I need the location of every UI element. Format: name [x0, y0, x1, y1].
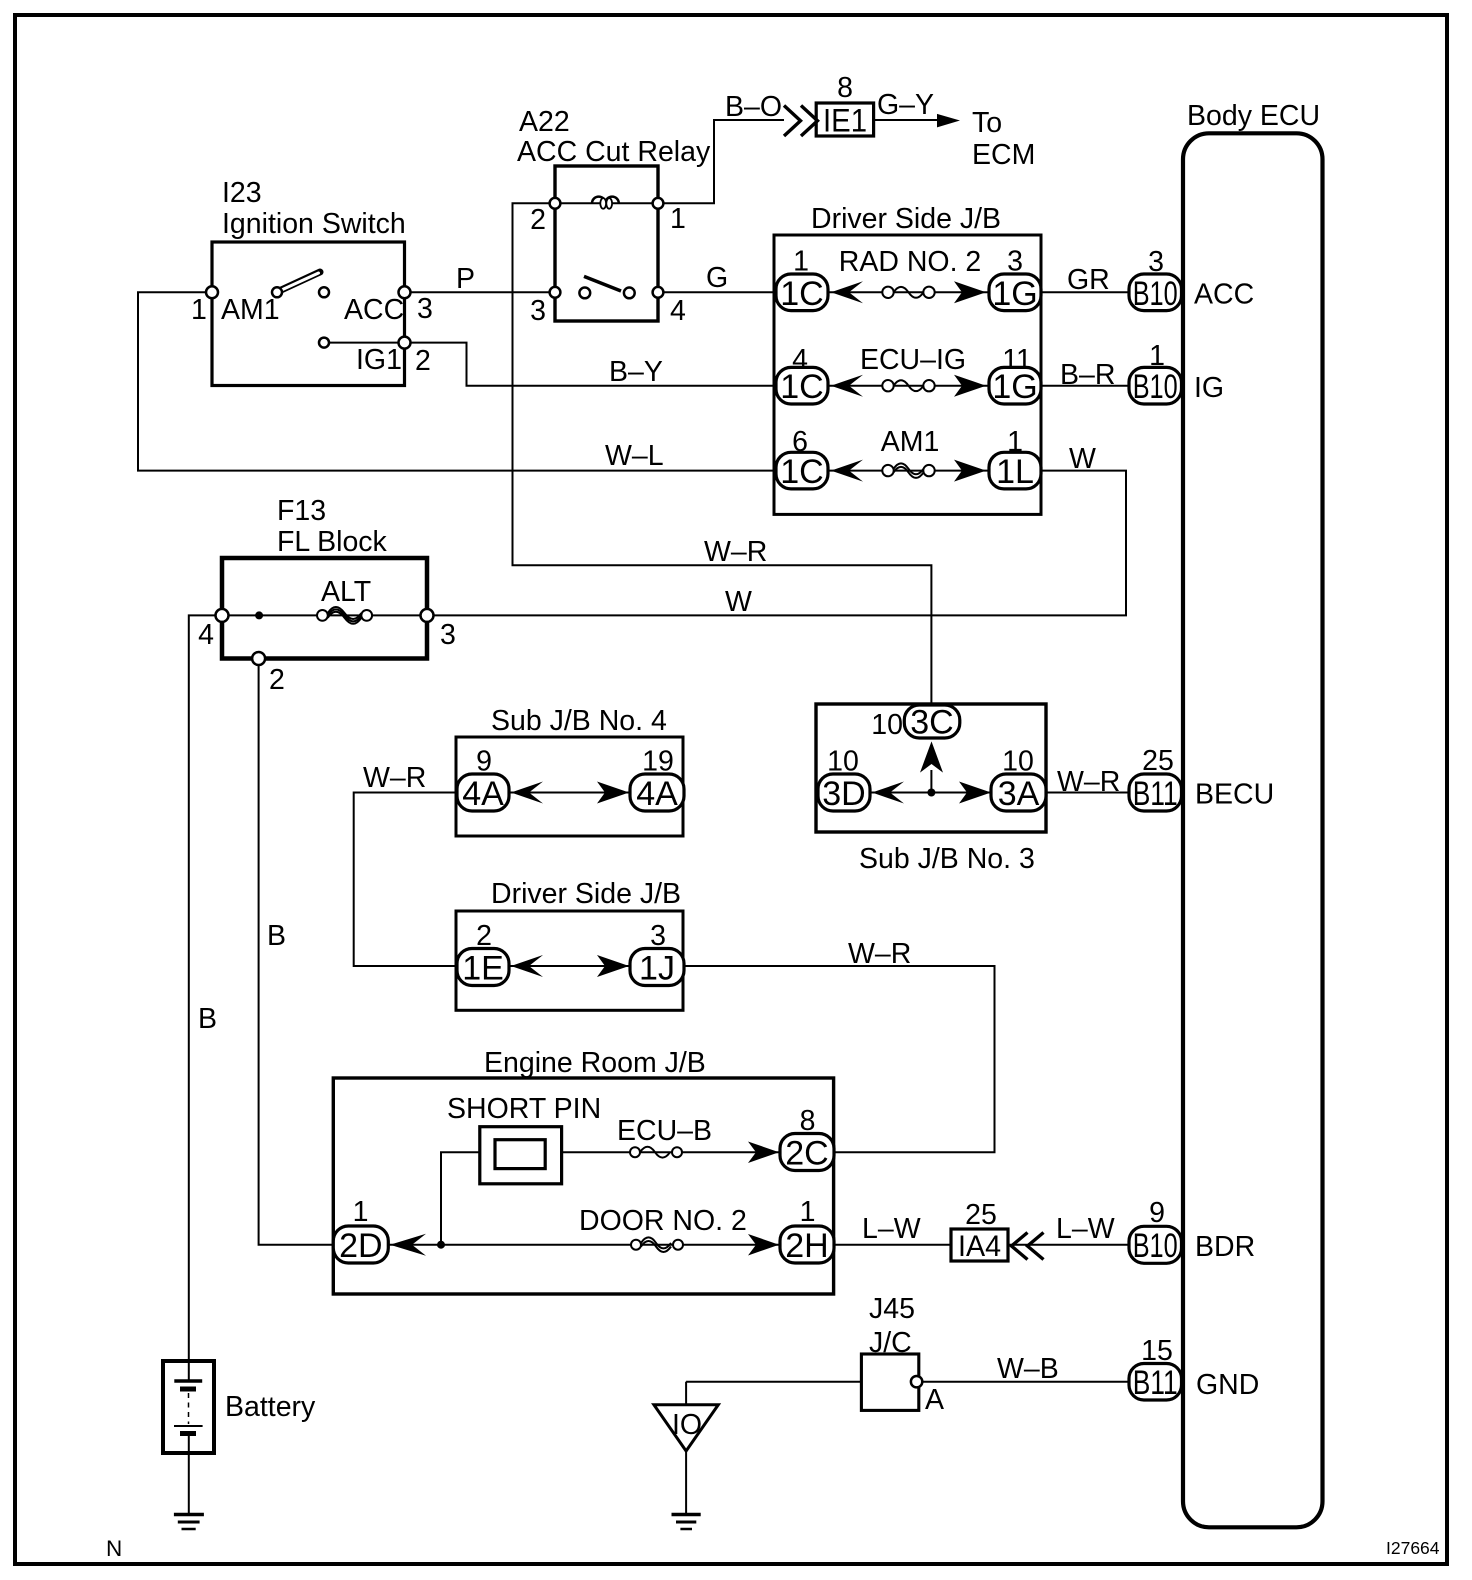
svg-text:GND: GND: [1196, 1369, 1259, 1401]
svg-text:ECU–B: ECU–B: [617, 1115, 712, 1147]
svg-text:BDR: BDR: [1195, 1231, 1255, 1263]
svg-text:1G: 1G: [992, 368, 1037, 406]
svg-text:IO: IO: [672, 1409, 702, 1441]
svg-text:3D: 3D: [822, 775, 865, 813]
svg-text:3: 3: [1007, 246, 1023, 278]
svg-text:B10: B10: [1133, 1227, 1178, 1265]
svg-text:B–Y: B–Y: [609, 356, 663, 388]
svg-text:19: 19: [642, 746, 674, 778]
svg-text:IG1: IG1: [356, 344, 402, 376]
svg-text:ECU–IG: ECU–IG: [860, 344, 966, 376]
svg-text:W–B: W–B: [997, 1353, 1059, 1385]
svg-text:W–R: W–R: [704, 536, 767, 568]
svg-text:3: 3: [417, 293, 433, 325]
svg-text:J45: J45: [869, 1293, 915, 1325]
svg-text:8: 8: [800, 1105, 816, 1137]
svg-text:1L: 1L: [996, 453, 1034, 491]
svg-text:AM1: AM1: [221, 294, 280, 326]
svg-text:Engine Room J/B: Engine Room J/B: [484, 1047, 706, 1079]
svg-text:1C: 1C: [780, 275, 823, 313]
svg-text:W–R: W–R: [1057, 766, 1120, 798]
svg-text:L–W: L–W: [1056, 1213, 1115, 1245]
svg-text:3: 3: [650, 920, 666, 952]
svg-text:B11: B11: [1133, 1364, 1178, 1402]
svg-text:8: 8: [837, 72, 853, 104]
svg-text:1: 1: [1149, 340, 1165, 372]
svg-text:B–O: B–O: [725, 91, 782, 123]
svg-text:9: 9: [1149, 1197, 1165, 1229]
svg-text:J/C: J/C: [869, 1327, 912, 1359]
svg-text:1: 1: [670, 203, 686, 235]
svg-text:3: 3: [1148, 246, 1164, 278]
svg-text:IG: IG: [1194, 372, 1224, 404]
svg-text:B: B: [198, 1003, 217, 1035]
svg-text:G–Y: G–Y: [877, 89, 934, 121]
svg-text:3: 3: [530, 295, 546, 327]
svg-text:Ignition Switch: Ignition Switch: [222, 208, 406, 240]
svg-text:W–R: W–R: [363, 762, 426, 794]
svg-text:RAD NO. 2: RAD NO. 2: [839, 246, 982, 278]
svg-text:SHORT PIN: SHORT PIN: [447, 1093, 601, 1125]
svg-text:2H: 2H: [785, 1227, 828, 1265]
svg-text:BECU: BECU: [1195, 779, 1274, 811]
svg-text:P: P: [456, 263, 475, 295]
svg-text:2: 2: [530, 204, 546, 236]
svg-text:4: 4: [670, 295, 686, 327]
svg-text:L–W: L–W: [862, 1213, 921, 1245]
svg-text:1C: 1C: [780, 453, 823, 491]
svg-text:B10: B10: [1133, 368, 1178, 406]
svg-text:B11: B11: [1133, 775, 1178, 813]
svg-text:W–R: W–R: [848, 938, 911, 970]
svg-text:GR: GR: [1067, 264, 1110, 296]
svg-text:2: 2: [415, 345, 431, 377]
svg-text:3A: 3A: [998, 775, 1040, 813]
svg-text:1: 1: [353, 1196, 369, 1228]
svg-text:B: B: [267, 920, 286, 952]
svg-text:W–L: W–L: [605, 440, 664, 472]
svg-text:IA4: IA4: [958, 1230, 1001, 1263]
svg-text:1: 1: [793, 246, 809, 278]
svg-text:1: 1: [800, 1196, 816, 1228]
svg-text:1C: 1C: [780, 368, 823, 406]
svg-text:2: 2: [269, 664, 285, 696]
svg-text:ACC: ACC: [344, 294, 404, 326]
svg-text:A22: A22: [519, 106, 570, 138]
svg-text:10: 10: [827, 746, 859, 778]
svg-text:1E: 1E: [462, 950, 504, 988]
svg-text:B–R: B–R: [1060, 359, 1115, 391]
svg-text:15: 15: [1141, 1335, 1173, 1367]
svg-text:B10: B10: [1133, 275, 1178, 313]
svg-text:ACC: ACC: [1194, 279, 1254, 311]
svg-text:10: 10: [1002, 746, 1034, 778]
svg-text:9: 9: [476, 746, 492, 778]
svg-text:2C: 2C: [785, 1135, 828, 1173]
svg-text:4: 4: [198, 619, 214, 651]
svg-text:I23: I23: [222, 177, 262, 209]
svg-text:ALT: ALT: [321, 576, 371, 608]
svg-text:F13: F13: [277, 495, 326, 527]
svg-text:25: 25: [1142, 745, 1174, 777]
svg-text:Sub J/B No. 4: Sub J/B No. 4: [491, 705, 667, 737]
svg-text:1G: 1G: [992, 275, 1037, 313]
svg-text:To: To: [972, 107, 1002, 139]
svg-text:Driver Side J/B: Driver Side J/B: [491, 878, 681, 910]
svg-text:FL Block: FL Block: [277, 526, 388, 558]
svg-text:Sub J/B No. 3: Sub J/B No. 3: [859, 843, 1035, 875]
svg-text:ACC Cut Relay: ACC Cut Relay: [517, 136, 711, 168]
svg-text:G: G: [706, 262, 728, 294]
svg-text:3: 3: [440, 619, 456, 651]
svg-text:Battery: Battery: [225, 1391, 316, 1423]
svg-text:Driver Side J/B: Driver Side J/B: [811, 203, 1001, 235]
svg-text:AM1: AM1: [881, 426, 940, 458]
svg-text:N: N: [106, 1536, 122, 1561]
svg-text:ECM: ECM: [972, 139, 1035, 171]
svg-text:25: 25: [965, 1199, 997, 1231]
svg-text:4A: 4A: [636, 775, 678, 813]
svg-text:W: W: [1069, 443, 1096, 475]
svg-text:DOOR NO. 2: DOOR NO. 2: [579, 1205, 747, 1237]
svg-text:3C: 3C: [910, 704, 953, 742]
svg-text:A: A: [925, 1384, 944, 1416]
svg-text:10: 10: [871, 709, 903, 741]
svg-text:IE1: IE1: [823, 103, 867, 139]
svg-text:1J: 1J: [639, 950, 675, 988]
svg-text:1: 1: [191, 294, 207, 326]
svg-text:2D: 2D: [339, 1227, 382, 1265]
svg-text:Body ECU: Body ECU: [1187, 100, 1320, 132]
svg-text:W: W: [725, 586, 752, 618]
svg-text:4A: 4A: [462, 775, 504, 813]
svg-text:2: 2: [476, 920, 492, 952]
svg-text:I27664: I27664: [1386, 1538, 1440, 1558]
